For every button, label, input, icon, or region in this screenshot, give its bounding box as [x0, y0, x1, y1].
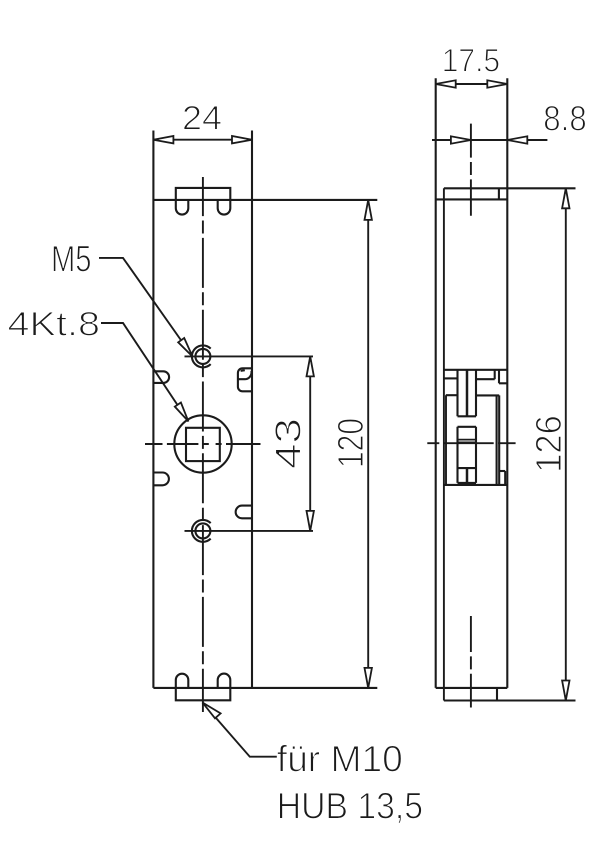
- 126 arrow down: [562, 681, 569, 701]
- mech right step vertical: [504, 471, 506, 485]
- mech H mid double line b: [458, 441, 477, 443]
- label 4Kt.8 leader arrowhead: [175, 403, 189, 422]
- mech column left wall: [456, 370, 458, 483]
- svg-text:8.8: 8.8: [543, 99, 586, 139]
- top tab right U-slot: [218, 200, 231, 215]
- side bottom tab right edge: [496, 688, 498, 701]
- mech column divider: [466, 370, 469, 483]
- svg-text:17.5: 17.5: [442, 43, 500, 79]
- side top tab: top line + 126 extension: [444, 187, 576, 189]
- 126 dimension line: [565, 188, 567, 700]
- 43 arrow down: [307, 511, 314, 531]
- 43-dim extension line bottom (through M5 bottom): [185, 530, 314, 532]
- 120 arrow down: [365, 668, 372, 688]
- side faceplate back line: [443, 188, 445, 700]
- 8.8 arrow at right edge: [507, 136, 527, 143]
- mech right notch bottom: [499, 382, 507, 384]
- mech top-left box bottom: [444, 377, 458, 379]
- label M5 leader arrowhead: [178, 338, 192, 357]
- side right edge + dims extension: [506, 78, 508, 688]
- label 4Kt.8 leader: [101, 323, 188, 421]
- mech mid shelf: [476, 394, 499, 396]
- mech H mid top: [458, 426, 477, 428]
- front vertical centerline: [202, 177, 204, 712]
- mech left shelf: [446, 394, 458, 396]
- side vertical centerline lower: [470, 616, 472, 708]
- mech right notch vertical: [498, 370, 500, 384]
- 24 arrow right: [232, 136, 252, 143]
- side top tab right edge: [498, 188, 500, 199]
- mech H mid double line a: [458, 439, 477, 441]
- right edge slot upper: inner bend line: [238, 371, 252, 379]
- side left edge + 17.5-dim extension: [435, 78, 437, 688]
- right edge slot upper (bent tab): [238, 368, 252, 391]
- mech right wall double b: [498, 395, 500, 485]
- mechanism box bottom: [444, 484, 507, 486]
- hub horizontal centerline: [145, 443, 261, 445]
- left edge notch lower: [153, 473, 169, 486]
- label M5 leader: [99, 258, 193, 357]
- mech top-middle box right: [494, 370, 496, 379]
- 43 dimension line: [309, 356, 311, 531]
- side plate top edge: [436, 198, 508, 200]
- 17.5 dimension line: [436, 83, 508, 85]
- mech right wall double a: [496, 395, 498, 485]
- side bottom tab: bottom line + 126 extension: [444, 699, 576, 701]
- left edge notch upper: [153, 371, 169, 383]
- M5 hole bottom: inner circle: [195, 523, 210, 538]
- svg-text:126: 126: [528, 415, 569, 473]
- 43-dim extension line top (through M5 top): [185, 355, 314, 357]
- 8.8 dimension line: [432, 139, 547, 141]
- side vertical centerline upper: [470, 124, 472, 216]
- right edge slot lower: [236, 506, 252, 519]
- 17.5 arrow left: [436, 80, 456, 87]
- svg-text:für M10: für M10: [277, 738, 403, 780]
- mech top-middle box bottom: [476, 378, 495, 380]
- mech inner-left wall: [445, 395, 447, 485]
- M5 hole top: thread arc: [192, 345, 211, 367]
- 126 arrow up: [562, 188, 569, 208]
- side plate bottom edge: [436, 687, 508, 689]
- mech H bottom cap: [458, 482, 477, 484]
- plate top edge + 120-dim extension: [153, 199, 377, 201]
- 120 dimension line: [367, 200, 369, 688]
- 17.5 arrow right: [487, 80, 507, 87]
- mech H mid bottom: [458, 467, 477, 469]
- mech column right wall: [475, 370, 477, 483]
- right edge slot upper: small tick: [241, 369, 245, 372]
- M5 hole top: inner circle: [195, 349, 210, 364]
- label fuer M10 leader arrowhead: [203, 703, 221, 719]
- square hole 8mm: [186, 428, 220, 461]
- top tab outline: [176, 188, 231, 200]
- side hub horizontal centerline: [427, 442, 515, 444]
- 43 arrow up: [307, 356, 314, 376]
- mech H top cap: [458, 415, 477, 417]
- svg-text:120: 120: [330, 418, 371, 468]
- svg-text:4Kt.8: 4Kt.8: [8, 306, 101, 344]
- M5 hole bottom: thread arc: [192, 520, 211, 542]
- label fuer M10 leader: [203, 703, 277, 757]
- plate right edge + 24-dim extension: [251, 131, 253, 688]
- 8.8 arrow at centerline: [451, 136, 471, 143]
- svg-text:M5: M5: [51, 238, 92, 280]
- bottom tab outline: [176, 688, 231, 700]
- top tab left U-slot: [176, 200, 189, 215]
- mechanism box top: [444, 369, 507, 371]
- bottom tab right U-slot: [218, 674, 231, 688]
- svg-text:24: 24: [182, 100, 222, 138]
- hub circle: [174, 415, 231, 472]
- mech right step top: [499, 470, 505, 472]
- bottom tab left U-slot: [176, 674, 189, 688]
- 24 arrow left: [153, 136, 173, 143]
- 24 dimension line: [153, 139, 252, 141]
- svg-text:HUB 13,5: HUB 13,5: [277, 785, 423, 827]
- plate left edge + 24-dim extension: [152, 131, 154, 688]
- svg-text:43: 43: [268, 418, 309, 469]
- plate bottom edge + 120-dim extension: [153, 687, 377, 689]
- 120 arrow up: [365, 200, 372, 220]
